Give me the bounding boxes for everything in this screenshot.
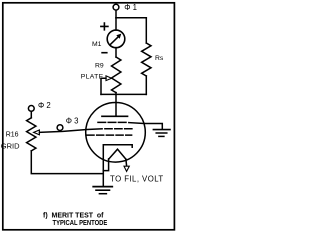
terminal P3 <box>57 117 78 131</box>
svg-text:Rs: Rs <box>155 55 164 62</box>
resistor R9 <box>81 57 121 93</box>
wire: bottom horizontal joining tap, R9, Rs <box>101 93 146 95</box>
terminal P2 <box>28 101 50 111</box>
wire: wiper to tube grid <box>39 129 102 133</box>
ground (bottom) <box>93 187 112 194</box>
wire: P2 to R16 <box>30 111 32 117</box>
grid g3 (to ground) <box>98 121 126 123</box>
wire: junction down to meter <box>115 18 117 30</box>
svg-text:TO FIL, VOLT: TO FIL, VOLT <box>110 175 164 184</box>
svg-text:PLATE: PLATE <box>81 73 104 80</box>
ground (right) <box>153 130 170 137</box>
wire: R16 bottom to ground <box>31 151 103 174</box>
svg-text:M1: M1 <box>92 41 102 48</box>
plate <box>102 115 128 117</box>
wire: Rs bottom down <box>145 76 147 94</box>
cathode <box>103 145 132 186</box>
filament heater <box>109 149 126 159</box>
wire: tap return <box>101 78 106 94</box>
svg-text:GRID: GRID <box>1 141 20 150</box>
wire: junction right to Rs top corner <box>116 17 146 19</box>
wire: R9 bottom through junction to plate <box>115 93 117 116</box>
svg-text:R16: R16 <box>6 132 19 139</box>
grid g2 <box>87 134 132 136</box>
svg-text:TYPICAL PENTODE: TYPICAL PENTODE <box>53 218 108 227</box>
meter M1 <box>92 23 125 54</box>
tube V1 envelope <box>86 103 146 163</box>
arrow to filament voltage <box>124 166 129 171</box>
wire: meter to R9 <box>115 48 117 57</box>
svg-text:Φ 3: Φ 3 <box>66 117 79 126</box>
grid g1 (control, to left wire) <box>105 128 134 130</box>
terminal P1 <box>113 3 137 12</box>
wire: heater left leg to bottom wire <box>103 159 108 171</box>
R16 wiper arrow <box>34 130 40 135</box>
svg-text:R9: R9 <box>95 63 104 70</box>
wire: P1 down to junction <box>115 10 117 18</box>
resistor Rs <box>142 43 164 76</box>
potentiometer R16 <box>1 118 36 151</box>
wire: heater right leg down <box>125 159 128 166</box>
svg-text:Φ 1: Φ 1 <box>124 3 137 12</box>
wire: Rs top corner down <box>145 18 147 43</box>
R9 tap arrow <box>106 76 112 81</box>
svg-text:Φ 2: Φ 2 <box>38 101 51 110</box>
